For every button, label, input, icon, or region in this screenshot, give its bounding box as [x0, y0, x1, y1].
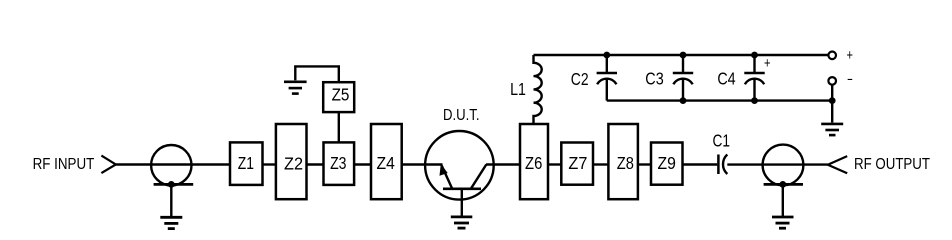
- ground (output): [772, 217, 794, 228]
- block Z9: [651, 143, 683, 185]
- ground (Z5): [284, 82, 307, 94]
- svg-text:Z3: Z3: [330, 153, 346, 173]
- transistor base bar: [443, 188, 481, 191]
- wire Z1 to Z2: [263, 163, 276, 165]
- wire input arrow to Z1 (through input connector): [116, 163, 230, 165]
- block Z6: [520, 124, 548, 199]
- junction dot C4 top: [751, 52, 758, 59]
- bottom supply rail: [607, 99, 832, 101]
- wire output connector to ground: [782, 184, 784, 216]
- output connector flange bar: [764, 183, 803, 186]
- ground (input): [160, 217, 182, 228]
- svg-text:RF INPUT: RF INPUT: [33, 156, 95, 173]
- svg-text:+: +: [847, 47, 854, 64]
- svg-text:Z4: Z4: [377, 153, 396, 173]
- wire Z3 to Z4: [354, 163, 371, 165]
- input arrow: [101, 156, 115, 174]
- wire DUT to Z6: [486, 163, 519, 165]
- wire C1 to output arrow (through output connector): [727, 163, 828, 165]
- wire base to ground: [461, 189, 463, 216]
- junction dot C2 top: [603, 52, 610, 59]
- output connector J2: [763, 145, 804, 186]
- wire Z4 to DUT: [402, 163, 443, 165]
- terminal + circle: [828, 52, 836, 60]
- svg-text:Z9: Z9: [658, 153, 676, 173]
- wire Z3 top to Z5: [338, 112, 340, 142]
- svg-text:Z1: Z1: [238, 153, 254, 173]
- resistor block Z1: [230, 142, 263, 185]
- ground (supply): [821, 124, 843, 135]
- terminal - circle: [828, 77, 836, 85]
- block Z4: [371, 124, 402, 199]
- svg-text:C2: C2: [571, 69, 589, 89]
- svg-text:+: +: [764, 55, 771, 72]
- svg-text:Z7: Z7: [568, 153, 587, 173]
- capacitor C1 (series coupling): [718, 155, 727, 175]
- svg-text:RF OUTPUT: RF OUTPUT: [854, 156, 930, 173]
- block Z8: [608, 124, 638, 199]
- junction dot C3 top: [680, 52, 687, 59]
- svg-text:D.U.T.: D.U.T.: [443, 107, 480, 124]
- svg-text:Z8: Z8: [617, 153, 634, 173]
- inductor L1: [534, 55, 542, 124]
- junction dot input connector: [168, 181, 175, 188]
- block Z2: [276, 124, 307, 199]
- wire Z6 to Z7: [548, 163, 561, 165]
- transistor Q1 (DUT) circle: [425, 131, 494, 200]
- wire input connector to ground: [170, 184, 172, 216]
- svg-text:C3: C3: [645, 69, 663, 89]
- output arrow: [828, 156, 847, 173]
- svg-text:C1: C1: [713, 130, 731, 150]
- wire bottom rail to ground: [831, 101, 833, 123]
- svg-text:C4: C4: [717, 69, 736, 89]
- capacitor C2: [597, 55, 617, 101]
- block Z7: [561, 143, 593, 185]
- input connector flange bar: [154, 183, 194, 186]
- wire Z9 to C1: [683, 163, 718, 165]
- wire Z2 to Z3: [307, 163, 324, 165]
- transistor emitter arrowhead: [440, 164, 448, 176]
- wire Z7 to Z8: [593, 163, 608, 165]
- transistor collector diagonal: [471, 165, 487, 189]
- wire Z8 to Z9: [638, 163, 651, 165]
- wire terminal - to bottom rail: [831, 85, 833, 101]
- junction dot bottom rail right: [829, 97, 836, 104]
- svg-text:Z6: Z6: [525, 153, 542, 173]
- svg-text:−: −: [847, 71, 853, 88]
- ground (DUT): [451, 217, 473, 228]
- svg-text:L1: L1: [510, 79, 526, 99]
- input connector J1: [151, 145, 191, 185]
- wire Z5 top to ground: [295, 66, 339, 82]
- capacitor C4 (polarized): [744, 55, 764, 101]
- junction dot C4 bottom: [751, 97, 758, 104]
- junction dot C3 bottom: [680, 97, 687, 104]
- block Z3: [324, 142, 355, 185]
- top supply rail: [534, 54, 829, 56]
- block Z5: [323, 82, 354, 112]
- svg-text:Z2: Z2: [284, 153, 303, 173]
- capacitor C3: [673, 55, 693, 101]
- transistor emitter diagonal: [441, 165, 452, 189]
- svg-text:Z5: Z5: [332, 84, 350, 104]
- junction dot output connector: [779, 181, 786, 188]
